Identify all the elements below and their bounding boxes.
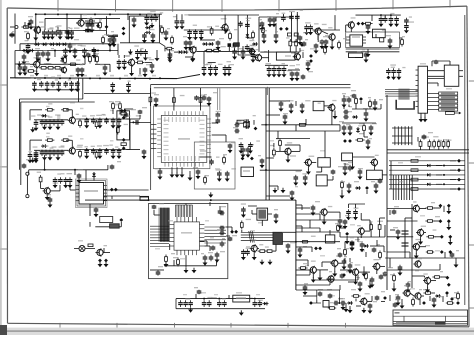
ground: [241, 255, 246, 260]
wire: [14, 14, 16, 28]
diode D55: [309, 301, 313, 305]
wire: [434, 207, 440, 209]
ic U12 section box: [149, 204, 228, 279]
ground: [42, 125, 47, 130]
wire: [390, 229, 395, 231]
diode D8: [60, 57, 64, 63]
wire: [370, 232, 372, 238]
wire: [82, 79, 84, 100]
wire: [339, 285, 341, 290]
wire: [33, 89, 79, 91]
wire: [231, 227, 233, 232]
capacitor C_hv stack: [402, 224, 409, 254]
node junction: [443, 165, 445, 167]
diode D80: [440, 250, 444, 254]
capacitor C116: [248, 140, 260, 148]
wire: [369, 220, 371, 224]
wire: [35, 14, 37, 36]
ground: [187, 35, 192, 40]
ground: [340, 193, 345, 198]
ground: [36, 56, 41, 61]
wire: [93, 172, 95, 181]
ground: [272, 72, 277, 77]
resistor R10: [165, 42, 174, 50]
wire: [120, 222, 122, 227]
capacitor C38: [143, 49, 148, 55]
wire: [185, 56, 193, 58]
capacitor C187: [25, 40, 31, 50]
wire: [126, 118, 133, 120]
title block: [393, 310, 468, 325]
transistor Q37: [248, 45, 256, 55]
diode D58: [450, 297, 454, 301]
transformer T1: [257, 208, 268, 220]
resistor R61: [454, 292, 459, 301]
transformer T2: [273, 232, 282, 244]
diode D72: [457, 187, 461, 191]
capacitor C156: [178, 298, 190, 307]
capacitor C258: [295, 68, 300, 77]
capacitor C135: [208, 252, 213, 261]
capacitor C205: [22, 159, 30, 169]
node junction: [218, 298, 220, 300]
ground: [112, 42, 117, 47]
ground: [155, 56, 160, 61]
capacitor C73: [55, 114, 60, 125]
capacitor C176: [18, 61, 29, 71]
capacitor C252: [356, 277, 362, 287]
node junction: [203, 298, 205, 300]
ground: [289, 108, 294, 113]
ground: [111, 40, 116, 45]
resistor R_h2: [237, 120, 244, 123]
ground: [63, 53, 68, 58]
resistor R74: [95, 118, 98, 129]
wire: [352, 161, 354, 165]
capacitor C4: [54, 25, 62, 36]
connector J2 box: [444, 65, 459, 86]
ground: [392, 286, 397, 291]
ground: [48, 125, 53, 130]
resistor R55: [425, 216, 440, 222]
diode D73: [254, 127, 258, 131]
net signal rows: [389, 161, 465, 189]
capacitor C128: [366, 138, 372, 145]
wire: [273, 250, 276, 252]
wire: [303, 295, 317, 297]
wire: [164, 46, 166, 51]
resistor R_onbus: [300, 123, 306, 126]
wire: [44, 18, 46, 30]
diode D59: [263, 302, 269, 306]
net bus y200: [85, 199, 296, 201]
ground: [246, 152, 251, 157]
wire: [66, 109, 72, 111]
wire: [339, 212, 341, 218]
diode D43: [314, 247, 318, 251]
wire: [248, 205, 257, 207]
wire: [89, 204, 91, 208]
net y50 junctions: [54, 50, 111, 52]
wire: [266, 130, 340, 132]
capacitor C51: [245, 18, 251, 29]
transistor Q20: [250, 239, 258, 252]
ground: [188, 307, 193, 312]
resistor R_x1: [380, 38, 384, 42]
capacitor C83: [52, 150, 57, 156]
capacitor C238: [393, 299, 400, 308]
wire: [139, 68, 141, 75]
resistor R_h1: [244, 123, 250, 128]
wire: [296, 269, 310, 271]
ground: [22, 59, 27, 64]
ground: [111, 154, 116, 159]
diode D30: [123, 109, 127, 113]
diode D6: [55, 43, 61, 47]
diode D7: [61, 43, 67, 47]
diode D1: [96, 24, 100, 28]
capacitor C11: [81, 45, 87, 54]
capacitor C255: [267, 16, 272, 23]
capacitor C197: [366, 24, 371, 29]
net bus horizontals: [387, 150, 469, 153]
capacitor C78: [102, 114, 109, 124]
wire: [340, 269, 352, 271]
wire: [145, 61, 152, 63]
wire: [355, 57, 363, 59]
ground: [308, 30, 313, 35]
ground: [58, 34, 63, 39]
transistor Q32: [359, 293, 369, 305]
capacitor C61: [383, 16, 388, 22]
resistor R67: [63, 54, 67, 65]
resistor R_dark1: [234, 43, 240, 47]
resistor R_row: [411, 178, 418, 181]
wire: [85, 22, 99, 24]
wire: [346, 48, 400, 50]
capacitor C43: [213, 64, 222, 72]
wire: [210, 156, 212, 158]
wire: [296, 213, 320, 215]
ground: [290, 195, 295, 200]
wire: [242, 46, 244, 51]
transistor Q3: [127, 54, 135, 67]
wire section box right part: [266, 87, 268, 95]
ground: [404, 28, 409, 33]
wire: [419, 246, 426, 248]
wire: [349, 258, 351, 262]
wire: [36, 55, 38, 61]
wire: [62, 50, 98, 52]
capacitor C142: [241, 248, 250, 256]
diode D40: [365, 186, 369, 190]
ground: [202, 71, 207, 76]
resistor R19: [79, 115, 87, 127]
ground: [298, 40, 303, 45]
transistor Q34: [413, 289, 422, 300]
ground: [132, 22, 137, 27]
transistor Q13: [68, 145, 83, 155]
ground: [48, 155, 53, 160]
capacitor C69: [37, 114, 44, 125]
wire: [321, 167, 323, 172]
node junction: [338, 302, 340, 304]
capacitor C164: [258, 300, 263, 307]
resistor R29: [116, 124, 128, 135]
capacitor C59: [308, 23, 318, 31]
wire: [324, 105, 332, 107]
wire: [224, 31, 226, 35]
wire grey bus pair down: [218, 88, 220, 110]
capacitor C13: [22, 52, 28, 60]
diode D_row: [427, 164, 430, 167]
capacitor C119: [342, 93, 347, 103]
ground: [391, 75, 396, 80]
ground: [232, 54, 237, 59]
diode D5: [49, 43, 55, 47]
ground: [273, 188, 278, 193]
wire: [404, 254, 406, 258]
wire nested box corner A: [20, 99, 83, 150]
ground: [332, 271, 337, 276]
ground: [199, 35, 204, 40]
diode D39: [355, 186, 361, 190]
capacitor C236: [318, 289, 323, 297]
wire: [389, 258, 391, 268]
resistor R21: [61, 136, 72, 142]
diode D22: [122, 116, 126, 120]
wire: [85, 20, 95, 22]
transistor Q16: [327, 100, 336, 112]
wire: [258, 247, 260, 249]
wire: [331, 111, 333, 125]
resistor R35: [359, 123, 365, 133]
ground: [63, 183, 68, 188]
resistor R81: [446, 297, 456, 304]
capacitor C97: [194, 95, 199, 100]
net rail junctions: [44, 13, 156, 15]
ground: [42, 155, 47, 160]
capacitor C18: [45, 78, 55, 88]
transistor Q2: [33, 22, 44, 35]
wire: [428, 75, 445, 77]
ground: [143, 55, 148, 60]
ground: [446, 209, 451, 214]
wire: [195, 294, 197, 299]
node test point TP1: [26, 172, 29, 175]
capacitor C115: [239, 138, 244, 149]
ground: [283, 119, 288, 124]
resistor R63: [171, 36, 174, 45]
wire: [169, 49, 171, 55]
capacitor C145: [298, 246, 307, 253]
ground: [225, 176, 230, 181]
capacitor C222: [286, 242, 295, 249]
wire: [443, 206, 445, 212]
wire: [39, 27, 41, 33]
transistor Q7: [254, 51, 267, 62]
ground: [333, 114, 338, 119]
diode D_row: [427, 173, 430, 176]
capacitor C30: [142, 31, 150, 39]
diode D26: [114, 188, 118, 192]
net rail V1 vertical: [265, 88, 267, 200]
ground: [366, 29, 371, 34]
transistor Q22: [309, 261, 317, 275]
diode D69: [457, 159, 461, 163]
wire: [192, 53, 194, 56]
capacitor C208: [154, 94, 159, 103]
ground: [320, 44, 325, 49]
ground: [142, 154, 147, 159]
diode D31: [122, 138, 126, 142]
capacitor C15: [122, 56, 130, 66]
resistor R32: [276, 138, 281, 148]
wire: [301, 205, 303, 210]
ground: [342, 264, 347, 269]
wire: [66, 139, 72, 141]
ground: [345, 239, 350, 244]
resistor R54: [425, 202, 435, 209]
wire: [355, 104, 357, 109]
wire: [327, 179, 333, 181]
wire: [324, 131, 326, 158]
capacitor C231: [194, 287, 201, 294]
ground: [364, 57, 369, 62]
transistor Q10: [293, 50, 304, 61]
wire: [45, 17, 120, 19]
capacitor C169: [112, 35, 118, 43]
ground: [366, 144, 371, 149]
capacitor C225: [383, 267, 393, 277]
ground: [303, 180, 308, 185]
capacitor C168: [108, 34, 118, 43]
capacitor C150: [370, 277, 375, 283]
transistor Q15: [95, 245, 107, 257]
capacitor C139: [219, 226, 224, 231]
ground: [84, 123, 89, 128]
diode D83: [92, 172, 96, 178]
capacitor C132: [347, 181, 359, 189]
capacitor C25: [126, 81, 131, 89]
resistor R37: [340, 181, 345, 190]
wire: [275, 244, 277, 251]
ground: [419, 117, 424, 122]
resistor R75: [95, 150, 98, 159]
wire: [365, 109, 367, 111]
capacitor C195: [262, 30, 267, 39]
resistor R24: [149, 92, 156, 104]
transistor Q23: [330, 255, 339, 267]
ground: [46, 56, 51, 61]
wire: [296, 246, 312, 248]
diode D65: [309, 59, 313, 63]
wire: [185, 255, 187, 267]
ground: [268, 22, 273, 27]
wire: [352, 108, 381, 110]
connector J1 (tall): [416, 66, 428, 113]
wire: [69, 186, 71, 190]
capacitor C5: [55, 26, 62, 36]
wire: [370, 245, 384, 247]
wire: [275, 17, 277, 21]
ground: [77, 178, 82, 183]
resistor R8: [89, 55, 92, 64]
wire: [415, 250, 417, 254]
wire: [39, 57, 41, 64]
capacitor C137: [220, 238, 225, 247]
resistor R_dark2: [110, 224, 120, 228]
transistor Q35: [60, 64, 68, 74]
capacitor C100: [134, 115, 141, 125]
wire: [287, 155, 289, 159]
wire: [291, 150, 300, 152]
ground: [394, 22, 399, 27]
ground: [353, 215, 358, 220]
ground: [314, 48, 319, 53]
wire nested box corner B: [21, 102, 95, 185]
wire: [351, 242, 353, 246]
wire: [302, 52, 304, 58]
wire: [26, 175, 28, 194]
capacitor C141: [241, 203, 246, 213]
capacitor C109: [234, 120, 241, 127]
wire: [104, 195, 140, 197]
ic U10: [342, 153, 353, 161]
wire: [111, 196, 113, 199]
wire: [355, 299, 357, 302]
ground: [68, 183, 73, 188]
ground: [190, 57, 195, 62]
capacitor C113: [244, 115, 255, 124]
wire: [375, 34, 377, 38]
capacitor C179: [80, 64, 85, 73]
resistor R53: [365, 272, 368, 281]
ground: [42, 34, 47, 39]
capacitor C48: [277, 63, 285, 73]
ground: [66, 34, 71, 39]
ic U7: [313, 101, 324, 110]
wire: [296, 289, 340, 291]
resistor R77: [173, 257, 179, 267]
resistor R56: [426, 229, 436, 238]
ground: [129, 71, 134, 76]
resistor R43: [443, 139, 449, 148]
capacitor C130: [343, 162, 353, 171]
wire: [285, 144, 300, 146]
bus parallel wires: [241, 232, 273, 240]
capacitor C121: [343, 106, 352, 114]
ground: [260, 260, 265, 265]
wire: [57, 27, 59, 31]
bus hatch block: [385, 89, 418, 100]
wire: [50, 190, 60, 192]
wire: [112, 110, 114, 114]
wire: [312, 273, 314, 278]
wire: [450, 188, 456, 190]
transistor Q29: [416, 226, 426, 237]
capacitor C27: [147, 13, 154, 22]
wire: [296, 219, 340, 221]
capacitor C221: [274, 209, 279, 219]
ground: [154, 102, 159, 107]
diode D61: [28, 49, 34, 53]
capacitor C125: [339, 121, 346, 131]
capacitor C23: [75, 77, 80, 88]
wire: [15, 50, 118, 52]
ground: [213, 71, 218, 76]
wire: [30, 139, 42, 141]
